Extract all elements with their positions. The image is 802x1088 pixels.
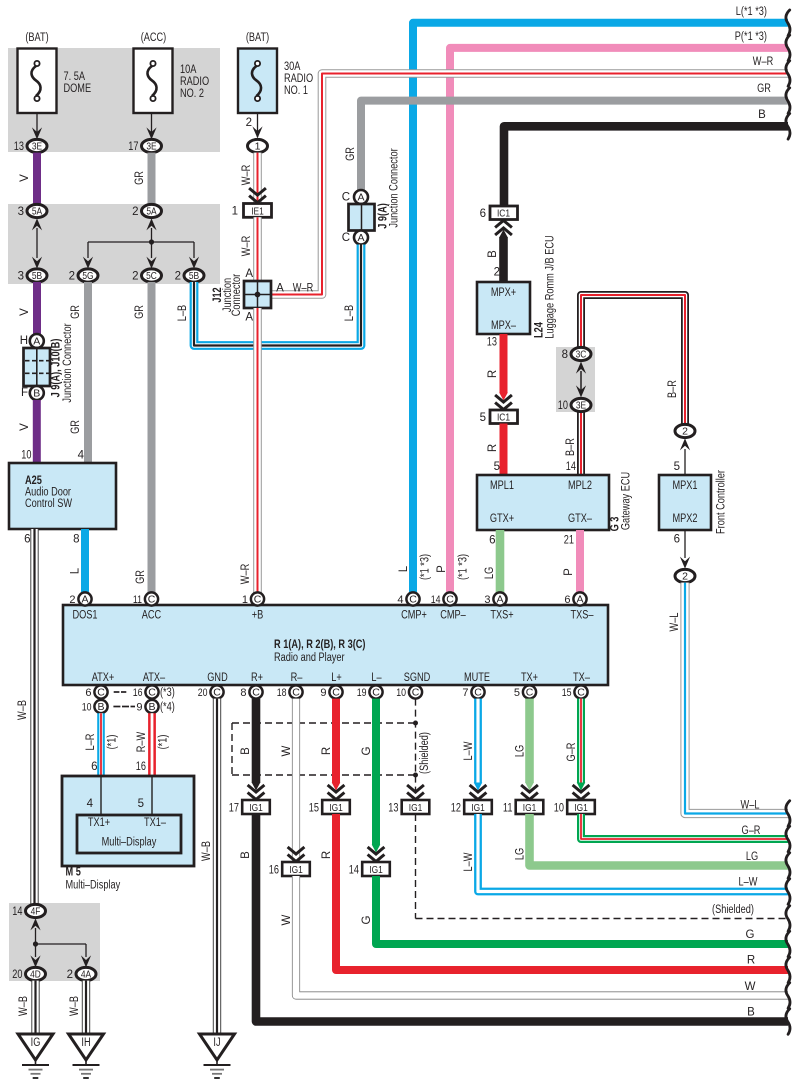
svg-text:CMP–: CMP– [440, 610, 466, 622]
svg-text:C: C [474, 687, 482, 699]
wire B-R from 3E to MPL2 [565, 412, 581, 476]
svg-text:C: C [292, 687, 300, 699]
svg-text:15: 15 [309, 802, 319, 814]
svg-text:(Shielded): (Shielded) [712, 904, 754, 916]
pin 15 C TX- [562, 685, 588, 698]
connector 2 5B [175, 269, 204, 282]
wire P horizontal to CMP- [436, 31, 790, 592]
svg-text:L: L [398, 565, 410, 572]
svg-text:R–W: R–W [136, 732, 148, 753]
wire L from A25 pin 8 to radio DOS1 [70, 529, 86, 592]
svg-text:F: F [21, 387, 28, 399]
svg-text:(*4): (*4) [160, 701, 175, 713]
wire W-R horizontal to J12 [271, 56, 790, 295]
svg-text:L–R: L–R [85, 734, 97, 751]
svg-text:5B: 5B [189, 270, 199, 282]
junction connector J9(A) [342, 148, 401, 244]
svg-text:(*3): (*3) [160, 687, 175, 699]
svg-text:GR: GR [135, 570, 147, 584]
svg-text:DOS1: DOS1 [72, 610, 97, 622]
wire GR from 5G to A25 pin 4 [70, 282, 88, 464]
svg-text:(*1 *3): (*1 *3) [420, 554, 432, 580]
svg-text:L–B: L–B [344, 305, 356, 322]
pin 7 C MUTE [462, 685, 484, 698]
svg-text:SGND: SGND [404, 672, 431, 684]
pin 9 C L+ [320, 685, 342, 698]
svg-text:15: 15 [562, 687, 572, 699]
svg-text:Control SW: Control SW [25, 498, 72, 510]
svg-text:IG1: IG1 [369, 864, 383, 876]
ECU A25 Audio Door Control SW [9, 463, 116, 529]
connector 10 IG1 [554, 800, 595, 814]
svg-text:W–R: W–R [241, 165, 253, 185]
svg-text:5: 5 [494, 461, 500, 473]
svg-text:C: C [409, 594, 417, 606]
pin 14 C CMP- [431, 592, 457, 605]
svg-text:P(*1 *3): P(*1 *3) [735, 31, 767, 43]
svg-text:10: 10 [21, 450, 31, 462]
svg-text:CMP+: CMP+ [401, 610, 427, 622]
svg-text:MPX+: MPX+ [491, 287, 517, 299]
junction connector J12 [212, 274, 271, 317]
fuse 7.5A DOME (BAT) [18, 32, 92, 113]
svg-text:8: 8 [73, 534, 79, 546]
svg-text:A: A [245, 268, 253, 280]
connector 2 5A [132, 204, 161, 217]
svg-text:IC1: IC1 [497, 412, 510, 424]
svg-text:V: V [19, 308, 31, 316]
svg-text:MUTE: MUTE [464, 672, 490, 684]
svg-text:10: 10 [82, 701, 92, 713]
svg-text:6: 6 [489, 535, 495, 547]
wire B horizontal to IC1 [504, 109, 790, 206]
svg-text:W–B: W–B [17, 700, 29, 720]
svg-text:4: 4 [87, 798, 94, 810]
svg-text:W: W [281, 745, 293, 756]
dashes ATX row1 [114, 691, 127, 693]
svg-text:4F: 4F [31, 906, 41, 918]
svg-text:A: A [576, 594, 583, 606]
svg-text:A: A [245, 312, 253, 324]
pin 19 C L- [357, 685, 383, 698]
svg-text:8: 8 [562, 349, 568, 361]
svg-text:10: 10 [554, 802, 564, 814]
pin 1 C +B [242, 592, 264, 605]
svg-text:TX–: TX– [573, 672, 590, 684]
svg-text:RADIO: RADIO [284, 73, 313, 85]
junction block shading band 3C/3E [556, 347, 595, 412]
svg-text:IJ: IJ [213, 1037, 220, 1049]
svg-text:IG1: IG1 [409, 802, 423, 814]
svg-text:MPX–: MPX– [491, 320, 517, 332]
svg-text:B: B [747, 1007, 755, 1019]
svg-text:14: 14 [12, 906, 23, 918]
svg-text:16: 16 [269, 864, 279, 876]
wire GR from 5C to radio ACC [134, 282, 152, 592]
svg-text:C: C [332, 687, 340, 699]
fuse 10A RADIO NO.2 (ACC) [134, 32, 210, 113]
svg-text:3: 3 [484, 594, 490, 606]
svg-text:5A: 5A [146, 206, 156, 218]
connector 5 IC1 [480, 410, 518, 424]
svg-text:6: 6 [24, 534, 30, 546]
svg-text:Gateway ECU: Gateway ECU [621, 472, 633, 530]
svg-text:A: A [276, 283, 284, 295]
connector 16 IG1 [269, 862, 310, 876]
svg-text:3E: 3E [32, 141, 42, 153]
ground IG [18, 1034, 53, 1078]
svg-text:L–W: L–W [463, 741, 475, 760]
svg-text:5A: 5A [32, 206, 42, 218]
svg-text:Junction Connector: Junction Connector [62, 323, 74, 402]
svg-text:MPX2: MPX2 [672, 513, 697, 525]
ground IH [69, 1034, 104, 1078]
svg-text:NO. 1: NO. 1 [284, 85, 308, 97]
svg-text:12: 12 [451, 802, 461, 814]
svg-text:14: 14 [566, 461, 577, 473]
svg-text:LG: LG [515, 745, 527, 757]
pin 8 C R+ [240, 685, 262, 698]
svg-text:LG: LG [484, 567, 496, 579]
ECU M5 Multi-Display [62, 776, 194, 892]
pin 2 A DOS1 [69, 592, 91, 605]
svg-text:GR: GR [134, 305, 146, 319]
connector 17 3E [128, 139, 161, 152]
connector 13 IG1 [388, 800, 429, 814]
fuse 30A RADIO NO.1 (BAT) [238, 32, 313, 113]
svg-text:(Shielded): (Shielded) [419, 732, 431, 774]
svg-text:V: V [19, 423, 31, 431]
svg-text:W–R: W–R [241, 236, 253, 256]
svg-text:5: 5 [514, 687, 520, 699]
svg-text:Radio and Player: Radio and Player [274, 652, 345, 664]
pin 10 C SGND [396, 685, 422, 698]
shielded cable dashed box [232, 699, 431, 800]
pin 3 A TXS+ [484, 592, 506, 605]
wire P from GTX- to TXS- [563, 530, 580, 592]
connector 8 3C [562, 347, 591, 360]
svg-text:IG1: IG1 [471, 802, 485, 814]
svg-text:10A: 10A [180, 64, 197, 76]
svg-text:3: 3 [18, 206, 24, 218]
junction block shading band top [8, 48, 220, 152]
svg-text:W–B: W–B [18, 996, 30, 1016]
svg-text:4: 4 [78, 450, 85, 462]
svg-text:G: G [361, 915, 373, 924]
wire W-L from connector 2 to right edge [669, 583, 790, 827]
svg-text:10: 10 [396, 687, 406, 699]
wire W-B from A25 pin 6 down to 4F [17, 529, 35, 905]
junction block shading band second [8, 204, 220, 284]
connector 17 IG1 [229, 800, 270, 814]
svg-text:IC1: IC1 [497, 208, 510, 220]
wire GR horizontal to J9(A) [345, 83, 790, 190]
svg-text:J 9(A), J10(B): J 9(A), J10(B) [51, 338, 63, 397]
svg-text:5: 5 [480, 412, 486, 424]
arrows between 3C and 3E [576, 362, 586, 398]
svg-text:9: 9 [320, 687, 326, 699]
pin 16 C ATX- [133, 685, 175, 698]
svg-text:(*1 *3): (*1 *3) [458, 554, 470, 580]
connector 3 5A [18, 204, 47, 217]
svg-text:GND: GND [207, 672, 227, 684]
svg-text:+B: +B [252, 610, 264, 622]
wire L-B from J9(A) to 2 5B [177, 245, 361, 346]
connector 2 (front controller lower) [675, 569, 695, 582]
svg-text:C: C [526, 687, 534, 699]
svg-text:ACC: ACC [142, 610, 161, 622]
junction block shading band bottom left [9, 903, 100, 981]
svg-text:C: C [342, 192, 350, 204]
svg-text:G: G [361, 746, 373, 755]
wire G from L- to right edge [361, 699, 384, 862]
connector 2 4A [67, 967, 96, 980]
svg-text:B: B [33, 388, 40, 400]
svg-text:6: 6 [674, 534, 680, 546]
svg-text:7: 7 [462, 687, 468, 699]
svg-text:16: 16 [136, 761, 146, 773]
svg-text:7. 5A: 7. 5A [64, 71, 86, 83]
ECU L24 Luggage Romm J/B ECU [477, 235, 557, 338]
connector 1 [248, 139, 268, 152]
svg-text:A: A [33, 336, 40, 348]
wire LG from TX+ to right edge [515, 699, 538, 800]
pin 6 A TXS- [564, 592, 586, 605]
svg-text:R: R [487, 370, 499, 378]
wire V from 5B to J9/J10 [19, 282, 37, 335]
svg-text:2: 2 [682, 571, 688, 583]
wire shielded drain SGND to right edge [407, 785, 424, 800]
pin 18 C R- [277, 685, 303, 698]
svg-text:A25: A25 [25, 475, 42, 487]
svg-text:IG1: IG1 [574, 802, 588, 814]
svg-text:L–: L– [371, 672, 382, 684]
svg-text:NO. 2: NO. 2 [180, 88, 204, 100]
connector 14 IG1 [349, 862, 390, 876]
svg-text:21: 21 [564, 535, 574, 547]
wire W-R from J12 to radio +B [240, 308, 258, 592]
wire R from L+ to right edge [321, 699, 344, 800]
svg-text:R–: R– [291, 672, 303, 684]
wire V from J10 to A25 pin 10 [19, 400, 37, 464]
svg-text:Luggage Romm J/B ECU: Luggage Romm J/B ECU [545, 235, 557, 338]
connector 2 5C [132, 269, 161, 282]
svg-text:10: 10 [558, 400, 568, 412]
svg-text:6: 6 [85, 687, 91, 699]
svg-text:17: 17 [229, 802, 239, 814]
svg-text:13: 13 [14, 141, 24, 153]
svg-text:5G: 5G [82, 270, 93, 282]
connector 13 3E [14, 139, 47, 152]
svg-text:14: 14 [349, 864, 360, 876]
connector 2 (front controller upper) [675, 424, 695, 437]
svg-text:G–R: G–R [742, 825, 761, 837]
wire from connector 2 to MPX1 [674, 438, 691, 476]
svg-text:RADIO: RADIO [180, 76, 209, 88]
svg-text:4D: 4D [30, 969, 41, 981]
junction connector IE1 [232, 204, 272, 218]
ground IJ [200, 1034, 235, 1078]
svg-text:Junction Connector: Junction Connector [389, 148, 401, 227]
wire R from MPX- to IC1 5 [487, 334, 512, 410]
svg-text:IG1: IG1 [289, 864, 303, 876]
svg-text:5: 5 [138, 798, 144, 810]
svg-text:14: 14 [431, 594, 441, 606]
connector 11 IG1 [503, 800, 543, 814]
svg-text:19: 19 [357, 687, 367, 699]
pin 9 B ATX- [136, 700, 175, 713]
svg-text:9: 9 [136, 701, 142, 713]
svg-text:R: R [321, 747, 333, 755]
svg-text:L(*1 *3): L(*1 *3) [736, 6, 767, 18]
svg-text:2: 2 [246, 117, 252, 129]
wire 5A to 5B with arrows [32, 218, 42, 268]
svg-text:G: G [746, 929, 755, 941]
svg-text:C: C [446, 594, 454, 606]
svg-text:L–W: L–W [739, 877, 758, 889]
svg-text:2: 2 [494, 267, 500, 279]
connector 14 4F [12, 904, 45, 917]
wire W from R- to right edge [281, 699, 304, 862]
svg-text:G–R: G–R [566, 743, 578, 762]
svg-text:13: 13 [487, 337, 497, 349]
wire B from R+ to right edge [240, 699, 264, 800]
svg-text:TX+: TX+ [521, 672, 538, 684]
svg-text:(ACC): (ACC) [141, 32, 167, 44]
svg-text:LG: LG [746, 851, 758, 863]
svg-text:(BAT): (BAT) [246, 32, 269, 44]
svg-text:C: C [252, 687, 260, 699]
svg-text:TXS+: TXS+ [490, 610, 514, 622]
svg-text:A: A [81, 594, 88, 606]
svg-text:W–B: W–B [201, 841, 213, 861]
ECU MPX1 MPX2 Front Controller [659, 470, 728, 534]
pin 11 C ACC [133, 592, 158, 605]
wire LG from GTX+ to TXS+ [484, 530, 500, 592]
svg-text:18: 18 [277, 687, 287, 699]
svg-text:R: R [321, 851, 333, 859]
svg-text:GR: GR [70, 305, 82, 319]
svg-text:Audio Door: Audio Door [25, 487, 71, 499]
svg-text:IG1: IG1 [523, 802, 537, 814]
wire B-R from 3C to connector 2 [581, 295, 685, 425]
svg-text:R: R [487, 444, 499, 452]
wire B from IC1 to MPX+ [487, 237, 504, 282]
svg-text:3: 3 [18, 270, 24, 282]
svg-text:17: 17 [128, 141, 138, 153]
svg-text:ATX–: ATX– [143, 672, 166, 684]
svg-text:C: C [372, 687, 380, 699]
svg-text:M 5: M 5 [66, 867, 82, 879]
svg-text:13: 13 [388, 802, 398, 814]
svg-text:L–B: L–B [177, 305, 189, 322]
svg-text:TX1+: TX1+ [88, 817, 110, 829]
svg-text:2: 2 [69, 270, 75, 282]
wire R-W from 9 B to M5 [136, 713, 170, 776]
svg-text:Front Controller: Front Controller [716, 470, 728, 534]
wire fuse RADIO NO.2 to 17 3E [146, 113, 156, 139]
svg-text:3C: 3C [576, 349, 587, 361]
svg-text:B: B [97, 701, 104, 713]
svg-text:3E: 3E [146, 141, 156, 153]
svg-text:LG: LG [515, 848, 527, 860]
svg-text:20: 20 [12, 969, 22, 981]
svg-text:B: B [487, 250, 499, 258]
wire R from IC1 to MPL1 [487, 424, 504, 477]
svg-text:8: 8 [240, 687, 246, 699]
svg-text:W–B: W–B [69, 996, 81, 1016]
svg-text:GR: GR [134, 171, 146, 185]
svg-text:R 1(A), R 2(B), R 3(C): R 1(A), R 2(B), R 3(C) [274, 639, 366, 651]
wire from MPX2 to connector 2 lower [674, 530, 691, 569]
svg-text:Connector: Connector [231, 274, 243, 317]
wire GR from 17 3E to 2 5A [134, 153, 152, 205]
svg-text:30A: 30A [284, 61, 301, 73]
svg-text:3E: 3E [576, 400, 586, 412]
svg-text:C: C [97, 687, 105, 699]
connector 3 5B [18, 269, 47, 282]
svg-text:2: 2 [132, 206, 138, 218]
svg-text:TX1–: TX1– [144, 817, 166, 829]
svg-text:MPL1: MPL1 [490, 480, 514, 492]
svg-text:DOME: DOME [64, 83, 92, 95]
dashes ATX row2 [113, 706, 135, 708]
svg-text:V: V [19, 174, 31, 182]
svg-text:IG1: IG1 [329, 802, 343, 814]
svg-text:16: 16 [133, 687, 143, 699]
svg-text:1: 1 [232, 206, 238, 218]
svg-text:ATX+: ATX+ [92, 672, 115, 684]
svg-text:GR: GR [70, 420, 82, 434]
svg-text:MPX1: MPX1 [672, 480, 697, 492]
svg-text:B: B [240, 747, 252, 755]
svg-text:B: B [148, 701, 155, 713]
svg-text:4A: 4A [81, 969, 91, 981]
svg-text:H: H [20, 335, 28, 347]
svg-text:W–R: W–R [753, 56, 773, 68]
svg-text:A: A [496, 594, 503, 606]
ECU G3 Gateway ECU [477, 472, 633, 532]
connector 6 IC1 [480, 206, 518, 238]
wire W-B from 4A to ground IH [69, 981, 86, 1034]
wire fuse RADIO NO.1 pin 2 to connector 1 [246, 113, 263, 138]
svg-text:(*1): (*1) [158, 734, 170, 749]
svg-text:MPL2: MPL2 [568, 480, 592, 492]
connector 15 IG1 [309, 800, 350, 814]
connector 2 5G [69, 269, 98, 282]
connector 12 IG1 [451, 800, 492, 814]
svg-text:W–R: W–R [293, 283, 313, 295]
wire fuse DOME to 13 3E [32, 113, 42, 139]
svg-text:6: 6 [480, 208, 486, 220]
ECU R1(A) R2(B) R3(C) Radio and Player [63, 605, 608, 685]
svg-text:B: B [758, 109, 766, 121]
svg-text:P: P [563, 568, 575, 576]
svg-text:Multi–Display: Multi–Display [66, 880, 121, 892]
pin 5 C TX+ [514, 685, 536, 698]
svg-text:IE1: IE1 [251, 205, 264, 217]
svg-text:IH: IH [81, 1037, 90, 1049]
svg-text:R+: R+ [251, 672, 263, 684]
svg-text:W–L: W–L [669, 612, 681, 631]
svg-text:GTX+: GTX+ [490, 513, 515, 525]
svg-text:4: 4 [397, 594, 403, 606]
svg-text:C: C [412, 687, 420, 699]
svg-text:B: B [240, 851, 252, 859]
junction connector J9(A) J10(B) grid [20, 323, 74, 402]
svg-text:L: L [70, 567, 82, 574]
connector 10 3E [558, 398, 591, 411]
